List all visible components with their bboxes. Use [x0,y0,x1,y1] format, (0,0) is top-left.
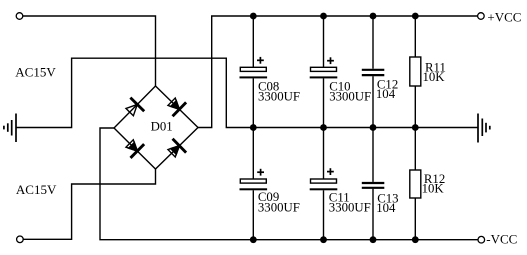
svg-text:3300UF: 3300UF [329,90,371,104]
svg-text:AC15V: AC15V [16,182,57,197]
svg-text:3300UF: 3300UF [258,89,300,103]
svg-text:AC15V: AC15V [15,64,56,79]
svg-text:10K: 10K [423,70,446,84]
svg-text:104: 104 [376,87,396,101]
svg-text:3300UF: 3300UF [329,201,371,215]
svg-text:104: 104 [376,201,396,215]
svg-text:D01: D01 [151,120,173,134]
svg-text:10K: 10K [422,181,445,195]
svg-text:3300UF: 3300UF [258,200,300,214]
svg-text:+VCC: +VCC [487,9,521,24]
svg-text:-VCC: -VCC [486,231,517,246]
